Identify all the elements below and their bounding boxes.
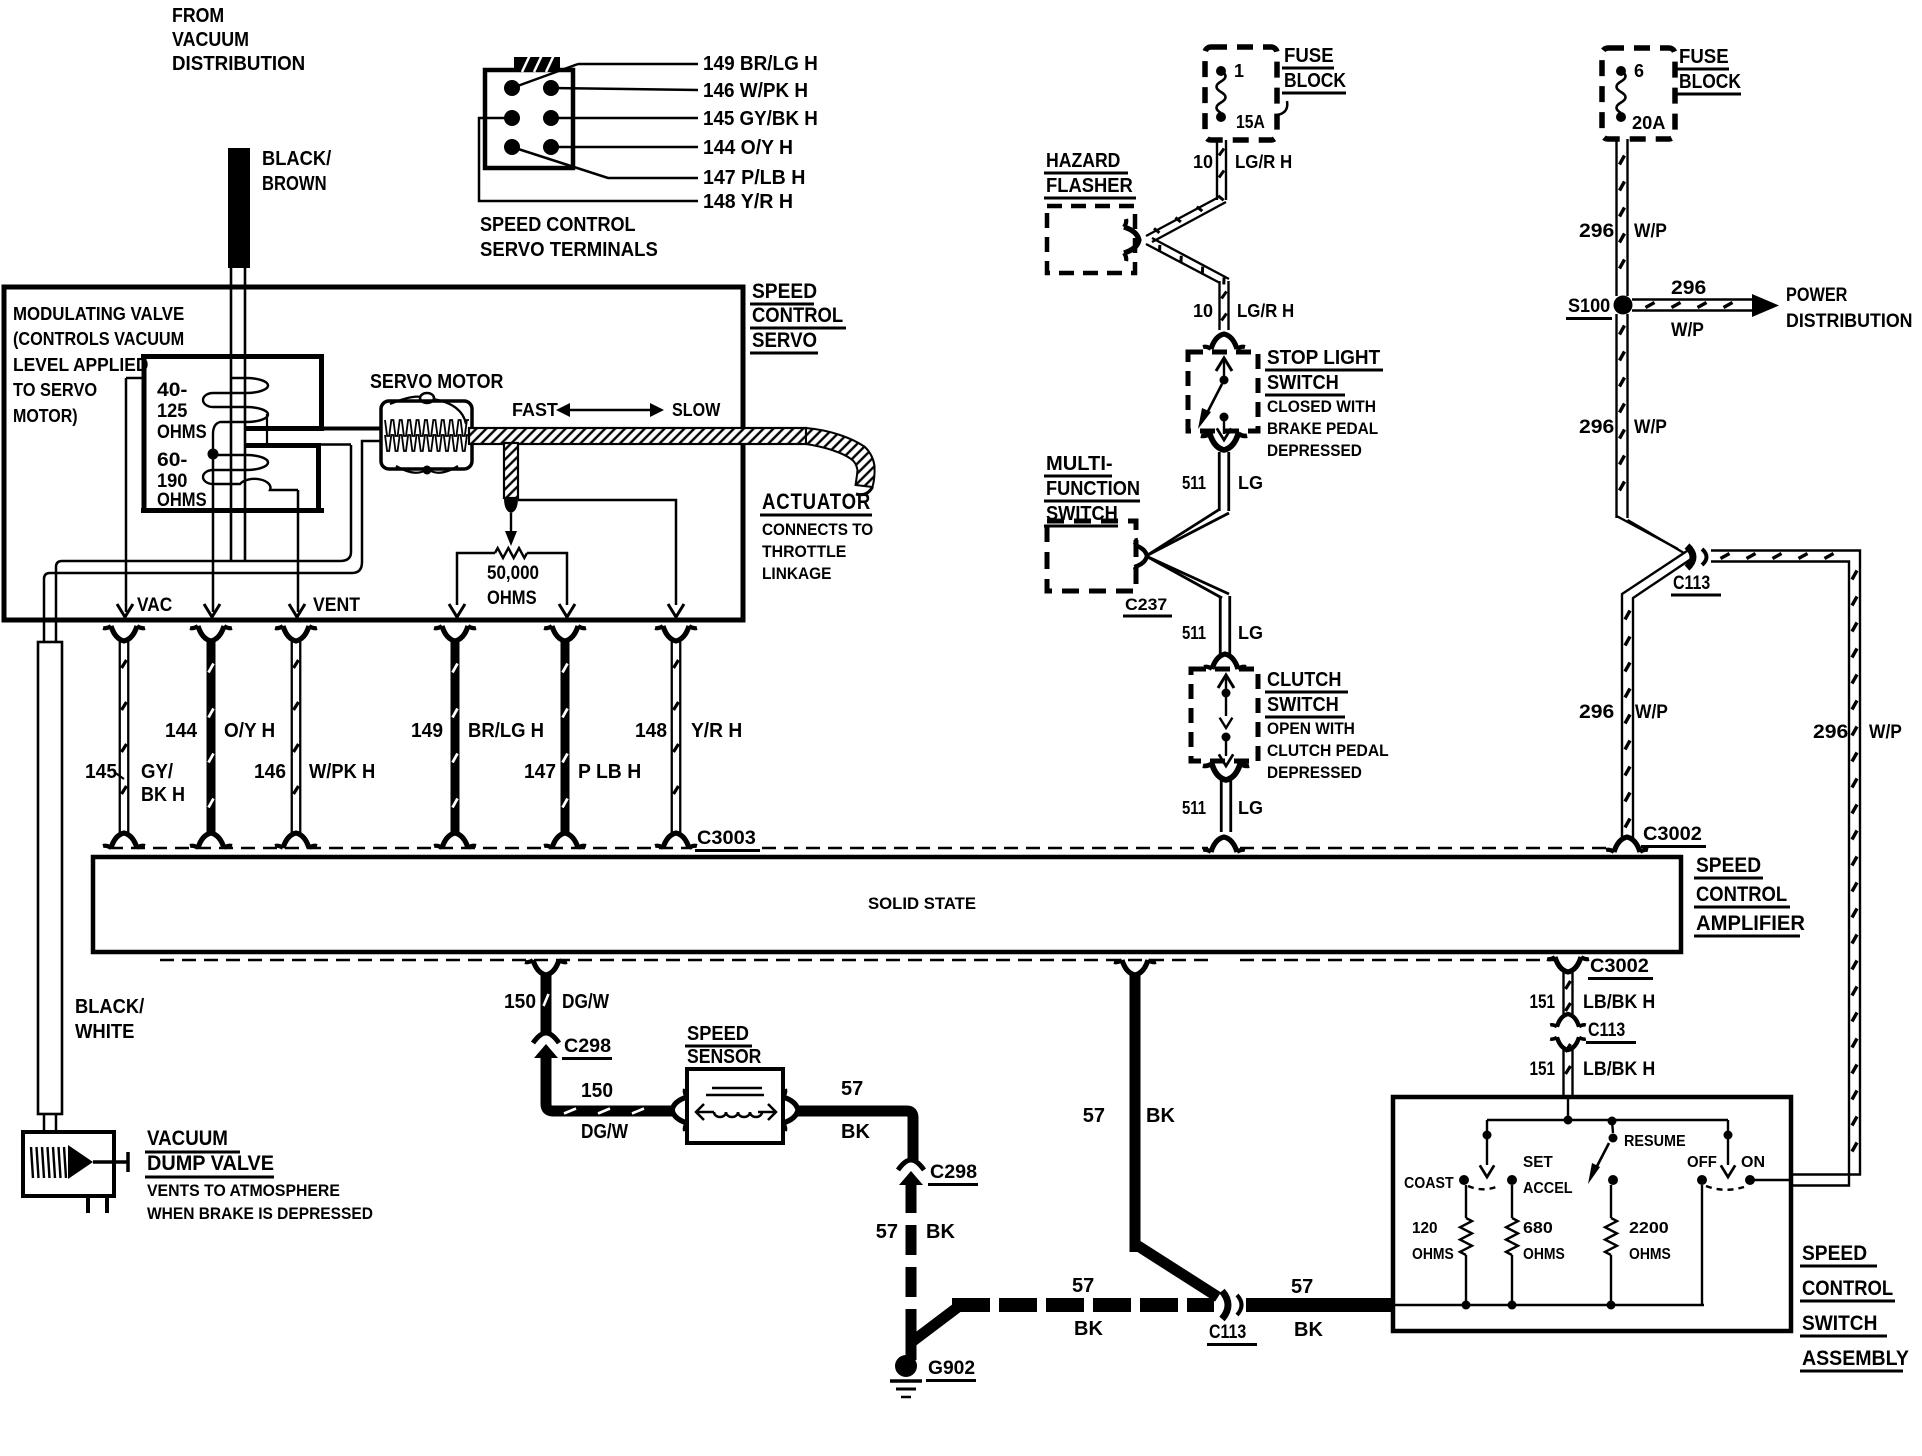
svg-text:LB/BK H: LB/BK H — [1583, 992, 1655, 1013]
svg-text:SERVO: SERVO — [752, 329, 817, 352]
svg-text:57: 57 — [1083, 1105, 1105, 1127]
svg-text:SPEED: SPEED — [1802, 1242, 1867, 1265]
svg-text:147: 147 — [524, 761, 556, 783]
svg-text:BK: BK — [926, 1221, 955, 1243]
svg-text:145 GY/BK H: 145 GY/BK H — [703, 108, 818, 130]
svg-text:OPEN WITH: OPEN WITH — [1267, 719, 1355, 738]
svg-text:LG: LG — [1238, 623, 1263, 643]
svg-text:149: 149 — [411, 720, 443, 742]
svg-text:WHITE: WHITE — [75, 1021, 134, 1043]
svg-text:151: 151 — [1530, 992, 1556, 1013]
svg-text:BLACK/: BLACK/ — [262, 148, 332, 170]
svg-text:BK: BK — [1146, 1105, 1175, 1127]
svg-text:150: 150 — [581, 1080, 613, 1102]
svg-text:ACCEL: ACCEL — [1523, 1180, 1573, 1197]
svg-text:C298: C298 — [930, 1162, 977, 1183]
svg-text:1: 1 — [1234, 61, 1244, 81]
svg-text:DEPRESSED: DEPRESSED — [1267, 763, 1362, 782]
svg-text:296: 296 — [1579, 221, 1614, 242]
svg-text:LB/BK H: LB/BK H — [1583, 1059, 1655, 1080]
svg-text:S100: S100 — [1568, 296, 1610, 317]
svg-text:VENTS TO ATMOSPHERE: VENTS TO ATMOSPHERE — [147, 1181, 340, 1200]
svg-text:W/P: W/P — [1671, 320, 1704, 341]
svg-text:CLOSED WITH: CLOSED WITH — [1267, 397, 1376, 416]
svg-text:C113: C113 — [1673, 573, 1710, 594]
svg-text:15A: 15A — [1236, 112, 1265, 132]
svg-text:CLUTCH PEDAL: CLUTCH PEDAL — [1267, 741, 1389, 760]
svg-text:POWER: POWER — [1786, 285, 1848, 306]
svg-text:C3002: C3002 — [1590, 956, 1649, 977]
svg-text:BK: BK — [1294, 1319, 1323, 1341]
svg-text:LG/R H: LG/R H — [1235, 152, 1292, 172]
svg-text:10: 10 — [1193, 152, 1213, 172]
svg-text:10: 10 — [1193, 301, 1213, 321]
svg-text:SOLID STATE: SOLID STATE — [868, 894, 976, 913]
svg-text:DISTRIBUTION: DISTRIBUTION — [172, 53, 305, 75]
svg-text:151: 151 — [1530, 1059, 1556, 1080]
svg-text:BLACK/: BLACK/ — [75, 996, 145, 1018]
svg-text:TO SERVO: TO SERVO — [13, 380, 97, 400]
svg-text:C298: C298 — [564, 1036, 611, 1057]
svg-text:6: 6 — [1634, 61, 1644, 81]
svg-text:190: 190 — [157, 471, 187, 492]
svg-text:FAST: FAST — [512, 399, 559, 420]
svg-text:511: 511 — [1182, 798, 1206, 818]
svg-text:511: 511 — [1182, 623, 1206, 643]
svg-text:MOTOR): MOTOR) — [13, 406, 78, 426]
svg-text:2200: 2200 — [1629, 1220, 1669, 1237]
svg-text:148 Y/R H: 148 Y/R H — [703, 191, 793, 213]
svg-text:VACUUM: VACUUM — [172, 29, 249, 51]
svg-text:W/P: W/P — [1869, 722, 1902, 743]
svg-text:FROM: FROM — [172, 5, 224, 27]
svg-text:147 P/LB H: 147 P/LB H — [703, 167, 805, 189]
svg-text:57: 57 — [876, 1221, 898, 1243]
svg-text:149 BR/LG H: 149 BR/LG H — [703, 53, 818, 75]
svg-text:DUMP VALVE: DUMP VALVE — [147, 1152, 274, 1175]
svg-text:C3002: C3002 — [1643, 824, 1702, 845]
svg-text:COAST: COAST — [1404, 1175, 1454, 1192]
svg-text:57: 57 — [1291, 1276, 1313, 1298]
svg-text:SPEED: SPEED — [752, 280, 817, 303]
svg-text:125: 125 — [157, 401, 188, 422]
svg-text:57: 57 — [841, 1078, 863, 1100]
svg-text:DG/W: DG/W — [562, 991, 609, 1013]
svg-text:146: 146 — [254, 761, 286, 783]
svg-text:CLUTCH: CLUTCH — [1267, 669, 1341, 691]
svg-text:57: 57 — [1072, 1275, 1094, 1297]
svg-text:VAC: VAC — [137, 595, 173, 616]
svg-text:SERVO MOTOR: SERVO MOTOR — [370, 371, 504, 393]
svg-text:SLOW: SLOW — [672, 399, 721, 420]
svg-text:BLOCK: BLOCK — [1679, 71, 1741, 93]
svg-text:CONTROL: CONTROL — [1802, 1277, 1893, 1300]
svg-text:FLASHER: FLASHER — [1046, 175, 1133, 197]
svg-text:C3003: C3003 — [697, 828, 756, 849]
svg-text:VACUUM: VACUUM — [147, 1127, 228, 1150]
svg-text:W/P: W/P — [1634, 417, 1667, 438]
svg-text:C113: C113 — [1209, 1322, 1246, 1343]
svg-text:LG/R H: LG/R H — [1237, 301, 1294, 321]
svg-text:296: 296 — [1671, 278, 1706, 299]
svg-text:Y/R H: Y/R H — [691, 720, 742, 742]
svg-text:145: 145 — [85, 761, 117, 783]
svg-text:LG: LG — [1238, 473, 1263, 493]
svg-text:OHMS: OHMS — [1412, 1246, 1454, 1263]
svg-text:GY/: GY/ — [141, 761, 173, 783]
svg-text:50,000: 50,000 — [487, 563, 539, 584]
svg-text:SERVO TERMINALS: SERVO TERMINALS — [480, 239, 658, 261]
svg-text:CONNECTS TO: CONNECTS TO — [762, 520, 873, 539]
svg-text:W/P: W/P — [1635, 702, 1668, 723]
svg-text:296: 296 — [1579, 417, 1614, 438]
svg-text:O/Y H: O/Y H — [224, 720, 275, 742]
svg-text:OHMS: OHMS — [157, 490, 207, 511]
svg-text:FUSE: FUSE — [1679, 46, 1729, 68]
svg-text:HAZARD: HAZARD — [1046, 150, 1120, 172]
svg-text:BLOCK: BLOCK — [1284, 70, 1346, 92]
svg-text:60-: 60- — [157, 450, 187, 471]
svg-text:THROTTLE: THROTTLE — [762, 542, 846, 561]
svg-text:SWITCH: SWITCH — [1267, 372, 1339, 394]
svg-text:146 W/PK H: 146 W/PK H — [703, 80, 808, 102]
svg-text:BK: BK — [841, 1121, 870, 1143]
svg-text:SENSOR: SENSOR — [687, 1046, 762, 1068]
svg-text:P LB H: P LB H — [578, 761, 641, 783]
svg-text:144 O/Y H: 144 O/Y H — [703, 137, 793, 159]
svg-text:OHMS: OHMS — [1523, 1246, 1565, 1263]
svg-text:W/PK H: W/PK H — [309, 761, 375, 783]
svg-text:LEVEL APPLIED: LEVEL APPLIED — [13, 355, 148, 375]
svg-text:511: 511 — [1182, 473, 1206, 493]
svg-text:G902: G902 — [928, 1358, 975, 1379]
svg-text:296: 296 — [1813, 722, 1848, 743]
svg-text:SPEED: SPEED — [687, 1023, 749, 1045]
svg-text:680: 680 — [1523, 1220, 1553, 1237]
svg-text:SET: SET — [1523, 1154, 1553, 1171]
svg-text:40-: 40- — [157, 380, 187, 401]
svg-text:OHMS: OHMS — [487, 588, 537, 609]
svg-text:BRAKE PEDAL: BRAKE PEDAL — [1267, 419, 1378, 438]
svg-text:LINKAGE: LINKAGE — [762, 564, 831, 583]
svg-text:SPEED: SPEED — [1696, 854, 1761, 877]
svg-text:OHMS: OHMS — [157, 422, 207, 443]
svg-text:FUNCTION: FUNCTION — [1046, 478, 1140, 500]
svg-text:WHEN BRAKE IS DEPRESSED: WHEN BRAKE IS DEPRESSED — [147, 1204, 373, 1223]
svg-text:144: 144 — [165, 720, 198, 742]
svg-text:BK H: BK H — [141, 784, 185, 806]
svg-text:ACTUATOR: ACTUATOR — [762, 489, 871, 514]
svg-text:ON: ON — [1741, 1154, 1765, 1171]
svg-text:FUSE: FUSE — [1284, 45, 1334, 67]
svg-text:BK: BK — [1074, 1318, 1103, 1340]
svg-text:VENT: VENT — [313, 595, 360, 616]
svg-text:C113: C113 — [1588, 1020, 1625, 1041]
svg-text:OHMS: OHMS — [1629, 1246, 1671, 1263]
svg-text:MODULATING VALVE: MODULATING VALVE — [13, 304, 184, 324]
svg-text:CONTROL: CONTROL — [1696, 883, 1787, 906]
svg-text:20A: 20A — [1632, 113, 1666, 133]
svg-text:SWITCH: SWITCH — [1802, 1312, 1877, 1335]
svg-text:DG/W: DG/W — [581, 1121, 628, 1143]
svg-text:MULTI-: MULTI- — [1046, 453, 1113, 475]
svg-text:W/P: W/P — [1634, 221, 1667, 242]
svg-text:148: 148 — [635, 720, 667, 742]
svg-text:DISTRIBUTION: DISTRIBUTION — [1786, 311, 1913, 332]
svg-text:C237: C237 — [1125, 595, 1167, 614]
svg-text:296: 296 — [1579, 702, 1614, 723]
svg-text:150: 150 — [504, 991, 536, 1013]
svg-text:AMPLIFIER: AMPLIFIER — [1696, 912, 1805, 935]
svg-text:CONTROL: CONTROL — [752, 304, 843, 327]
svg-text:LG: LG — [1238, 798, 1263, 818]
svg-text:120: 120 — [1412, 1220, 1438, 1237]
svg-text:SWITCH: SWITCH — [1267, 694, 1339, 716]
svg-text:SPEED CONTROL: SPEED CONTROL — [480, 214, 636, 236]
svg-text:ASSEMBLY: ASSEMBLY — [1802, 1347, 1909, 1370]
svg-text:BROWN: BROWN — [262, 173, 327, 195]
svg-text:BR/LG H: BR/LG H — [468, 720, 544, 742]
svg-text:OFF: OFF — [1687, 1154, 1717, 1171]
svg-text:STOP LIGHT: STOP LIGHT — [1267, 347, 1380, 369]
svg-text:DEPRESSED: DEPRESSED — [1267, 441, 1362, 460]
svg-text:RESUME: RESUME — [1624, 1133, 1686, 1150]
svg-text:(CONTROLS VACUUM: (CONTROLS VACUUM — [13, 329, 184, 349]
